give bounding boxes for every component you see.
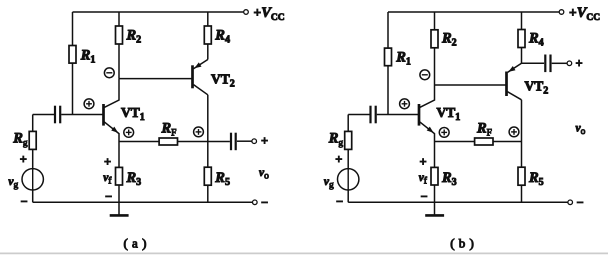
svg-text:+VCC: +VCC: [569, 5, 600, 23]
caption (a): [123, 236, 146, 251]
resistor R4 (a): [204, 12, 230, 60]
wire emitter feedback line (a): [119, 141, 230, 143]
resistor R5 (a): [204, 95, 230, 203]
svg-text:RF: RF: [161, 121, 177, 139]
svg-text:vo: vo: [259, 167, 269, 182]
svg-text:vg: vg: [8, 176, 18, 191]
node minus polarity at VT1 collector (a): [104, 68, 114, 78]
svg-text:vg: vg: [324, 176, 334, 191]
label vo (b): [576, 123, 586, 138]
svg-text:VT2: VT2: [525, 79, 549, 97]
svg-text:R3: R3: [126, 170, 142, 188]
svg-text:−: −: [105, 190, 112, 204]
resistor R1 (b): [385, 12, 411, 115]
source vg (b): [324, 153, 359, 209]
output terminal plus (a): [252, 134, 268, 148]
svg-text:R1: R1: [80, 48, 96, 66]
resistor R2 (b): [431, 12, 457, 85]
transistor VT1 (b): [419, 85, 460, 142]
resistor R3 with feedback voltage vf (a): [103, 142, 141, 204]
page bottom divider: [0, 252, 608, 254]
svg-text:VT1: VT1: [121, 105, 145, 123]
svg-text:( a ): ( a ): [123, 236, 146, 251]
transistor VT1 (a): [104, 79, 145, 142]
transistor VT2 (a): [119, 60, 235, 95]
resistor Rg (b): [328, 115, 352, 169]
resistor R4 (b): [518, 12, 544, 63]
node plus polarity at VT1 base (b): [400, 99, 410, 109]
svg-text:R2: R2: [126, 28, 142, 46]
resistor Rg (a): [12, 115, 36, 169]
svg-text:R3: R3: [441, 170, 457, 188]
svg-text:VT1: VT1: [437, 105, 461, 123]
wire top supply rail (a): [73, 11, 244, 13]
svg-text:+: +: [104, 155, 111, 169]
output terminal plus (b): [567, 56, 583, 70]
svg-text:RF: RF: [476, 121, 492, 139]
node minus polarity at VT1 collector (b): [420, 70, 430, 80]
svg-text:vf: vf: [419, 172, 428, 187]
svg-text:( b ): ( b ): [450, 236, 474, 251]
node plus polarity at VT1 base (a): [84, 99, 94, 109]
svg-text:−: −: [261, 195, 268, 209]
svg-text:R5: R5: [528, 170, 544, 188]
node plus polarity at R5 top (b): [509, 127, 519, 137]
ground (b): [425, 202, 444, 215]
svg-text:+: +: [335, 153, 342, 167]
wire VT1 base (a): [33, 114, 104, 116]
output terminal minus (b): [348, 195, 583, 209]
capacitor input coupling (b): [371, 106, 376, 124]
svg-text:vf: vf: [103, 172, 112, 187]
svg-text:R4: R4: [214, 28, 230, 46]
svg-text:+: +: [20, 153, 27, 167]
resistor R2 (a): [116, 12, 142, 79]
svg-text:vo: vo: [576, 123, 586, 138]
svg-text:R2: R2: [441, 31, 457, 49]
svg-text:R4: R4: [528, 31, 544, 49]
caption (b): [450, 236, 474, 251]
label vo (a): [259, 167, 269, 182]
svg-text:−: −: [420, 190, 427, 204]
node plus polarity at VT1 emitter (b): [439, 127, 449, 137]
svg-text:−: −: [20, 195, 27, 209]
svg-text:VT2: VT2: [211, 72, 235, 90]
svg-text:Rg: Rg: [12, 131, 28, 149]
power terminal +Vcc (a): [244, 5, 285, 23]
svg-text:Rg: Rg: [328, 131, 344, 149]
resistor RF (a): [159, 121, 177, 146]
wire emitter feedback line (b): [435, 141, 522, 143]
capacitor input coupling (a): [55, 106, 60, 124]
svg-text:R1: R1: [395, 50, 411, 68]
svg-text:+: +: [419, 155, 426, 169]
power terminal +Vcc (b): [559, 5, 600, 23]
svg-text:+: +: [576, 56, 583, 70]
svg-text:+VCC: +VCC: [254, 5, 285, 23]
resistor R1 (a): [69, 12, 95, 115]
source vg (a): [8, 153, 43, 209]
output terminal minus (a): [33, 195, 268, 209]
svg-text:−: −: [576, 195, 583, 209]
transistor VT2 (b): [435, 63, 549, 100]
capacitor output coupling (a): [231, 133, 252, 151]
node plus polarity at VT1 emitter (a): [124, 127, 134, 137]
resistor R3 with feedback voltage vf (b): [419, 142, 457, 204]
resistor R5 (b): [518, 100, 544, 203]
wire VT1 base (b): [348, 114, 419, 116]
ground (a): [110, 202, 129, 215]
wire top supply rail (b): [388, 11, 559, 13]
node plus polarity at R5 top (a): [194, 127, 204, 137]
capacitor output coupling (b): [522, 55, 568, 73]
svg-text:−: −: [336, 195, 343, 209]
svg-text:R5: R5: [214, 170, 230, 188]
svg-text:+: +: [261, 134, 268, 148]
resistor RF (b): [475, 121, 493, 146]
